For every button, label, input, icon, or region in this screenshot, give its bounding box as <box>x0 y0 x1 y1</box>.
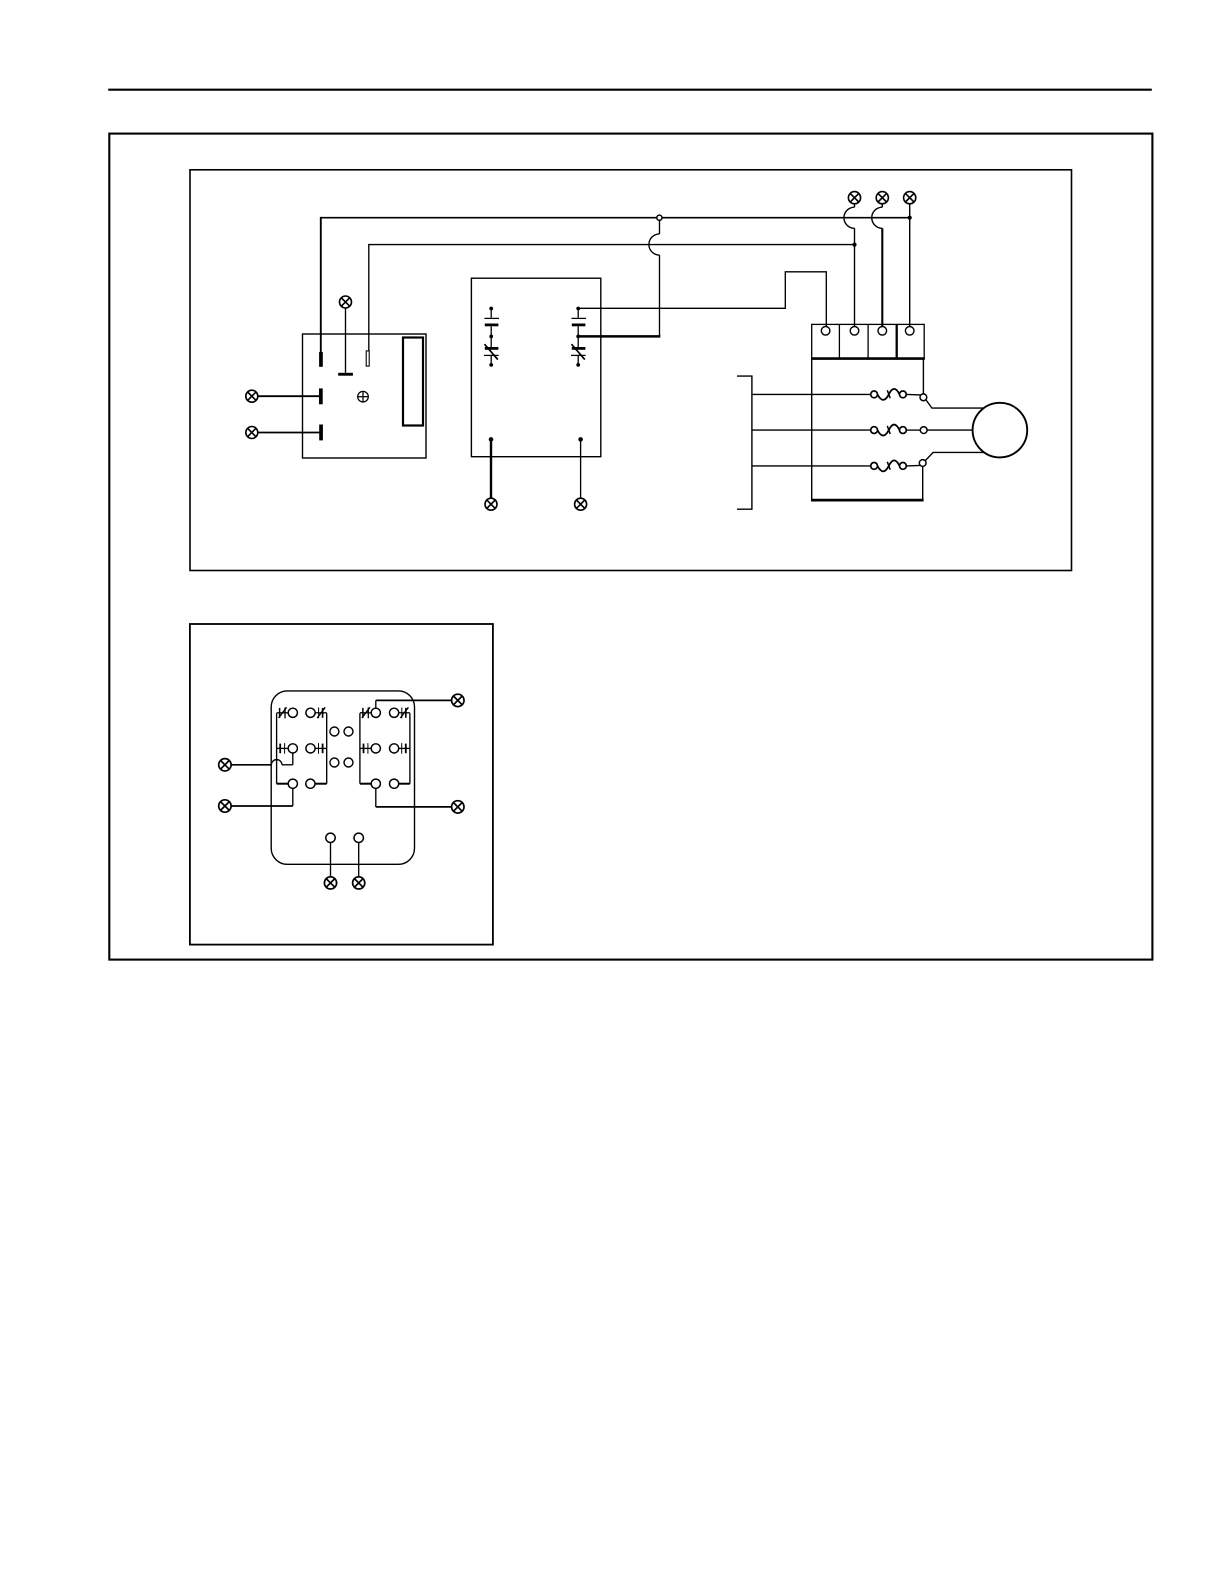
coil pin left <box>326 833 335 842</box>
wire row C left to connector X10 <box>231 788 293 806</box>
earth mark (circle with cross) <box>358 391 369 402</box>
left pole group rails <box>276 713 278 784</box>
terminal bar T4 (horizontal) <box>338 373 353 376</box>
left group row C contacts <box>277 779 327 788</box>
relay body (diagram 2) <box>271 691 414 864</box>
page rule <box>108 89 1152 91</box>
wire row C right-group to connector X12 <box>376 788 452 807</box>
diagram 1 border <box>190 170 1072 571</box>
connector X5 <box>246 390 258 402</box>
connector X10 <box>219 800 231 812</box>
capacitor unit box <box>471 278 600 457</box>
connector X13 <box>324 877 336 889</box>
center pin 2 <box>344 727 353 736</box>
capacitor C1 chain (left) <box>484 307 499 367</box>
thick wire capacitor mid to vertical <box>578 335 660 338</box>
fuse F2 row <box>752 425 973 436</box>
right group row A contacts <box>360 707 410 718</box>
diagram 2 border <box>190 624 493 945</box>
step wire capacitor top to terminal 1 <box>578 272 826 327</box>
lead X4 to bar <box>345 308 347 373</box>
coil pin right <box>354 833 363 842</box>
lead X6 to bar T3 <box>258 432 320 434</box>
connector X11 <box>452 694 464 706</box>
lead from X1 with hop over L1 <box>844 204 855 327</box>
terminal bar T3 <box>319 425 323 441</box>
right pole group rails <box>359 713 361 784</box>
node A (small ring on L1) <box>657 215 662 220</box>
motor M <box>973 403 1028 458</box>
lead from X3 <box>909 204 911 327</box>
starter body <box>811 359 924 501</box>
center pin 1 <box>330 727 339 736</box>
lead to connector X7 (thick) <box>490 439 492 498</box>
switch slot <box>366 351 369 366</box>
right group row B contacts <box>360 743 410 754</box>
connector X14 <box>353 877 365 889</box>
left group row B contacts <box>277 743 327 754</box>
wire row A right-group to connector X11 <box>376 700 452 708</box>
junction dot L2 end <box>852 243 856 247</box>
right group row C contacts <box>360 779 410 788</box>
terminal screw 4 <box>905 327 914 336</box>
left group row A contacts <box>277 707 327 718</box>
terminal screw 1 <box>821 327 830 336</box>
figure frame <box>109 134 1152 960</box>
wire row B left to connector X9 with hop over rail <box>231 753 293 765</box>
switch inner block <box>403 338 423 426</box>
terminal bar T2 <box>319 388 323 404</box>
center pin 3 <box>330 758 339 767</box>
connector X12 <box>452 801 464 813</box>
connector X6 <box>246 427 258 439</box>
connector X9 <box>219 759 231 771</box>
junction dot L1/X3 <box>908 216 912 220</box>
switch box S1 <box>303 334 427 458</box>
connector X1 <box>848 192 860 204</box>
capacitor C2 chain (right) <box>571 307 586 367</box>
connector X3 <box>904 192 916 204</box>
lead X5 to bar T2 <box>258 395 319 397</box>
center pin 4 <box>344 758 353 767</box>
lead coil right to X14 <box>358 843 360 877</box>
wire L1 (top horizontal) <box>321 217 910 219</box>
lead coil left to X13 <box>330 843 332 877</box>
terminal screw 2 <box>850 327 859 336</box>
capacitor terminal dot right <box>578 437 583 442</box>
wire L2 drop to switch slot <box>368 244 370 351</box>
connector X2 <box>876 192 888 204</box>
terminal bar T1 <box>319 352 323 367</box>
lead from X2 with hop over L1 (thick below) <box>872 204 883 327</box>
connector X7 <box>485 498 497 510</box>
terminal block row <box>811 324 925 358</box>
terminal screw 3 <box>878 327 887 336</box>
wire L2 (second horizontal) <box>369 244 855 246</box>
connector X4 (above switch) <box>340 296 352 308</box>
wire from node A down with hop over L2 <box>649 220 660 337</box>
lead to connector X8 <box>580 439 582 498</box>
wire L1 drop to switch <box>320 217 322 353</box>
capacitor terminal dot left <box>489 437 494 442</box>
fuse F3 row <box>752 452 984 471</box>
supply bracket <box>737 376 752 509</box>
fuse F1 row <box>752 389 984 408</box>
connector X8 <box>575 498 587 510</box>
